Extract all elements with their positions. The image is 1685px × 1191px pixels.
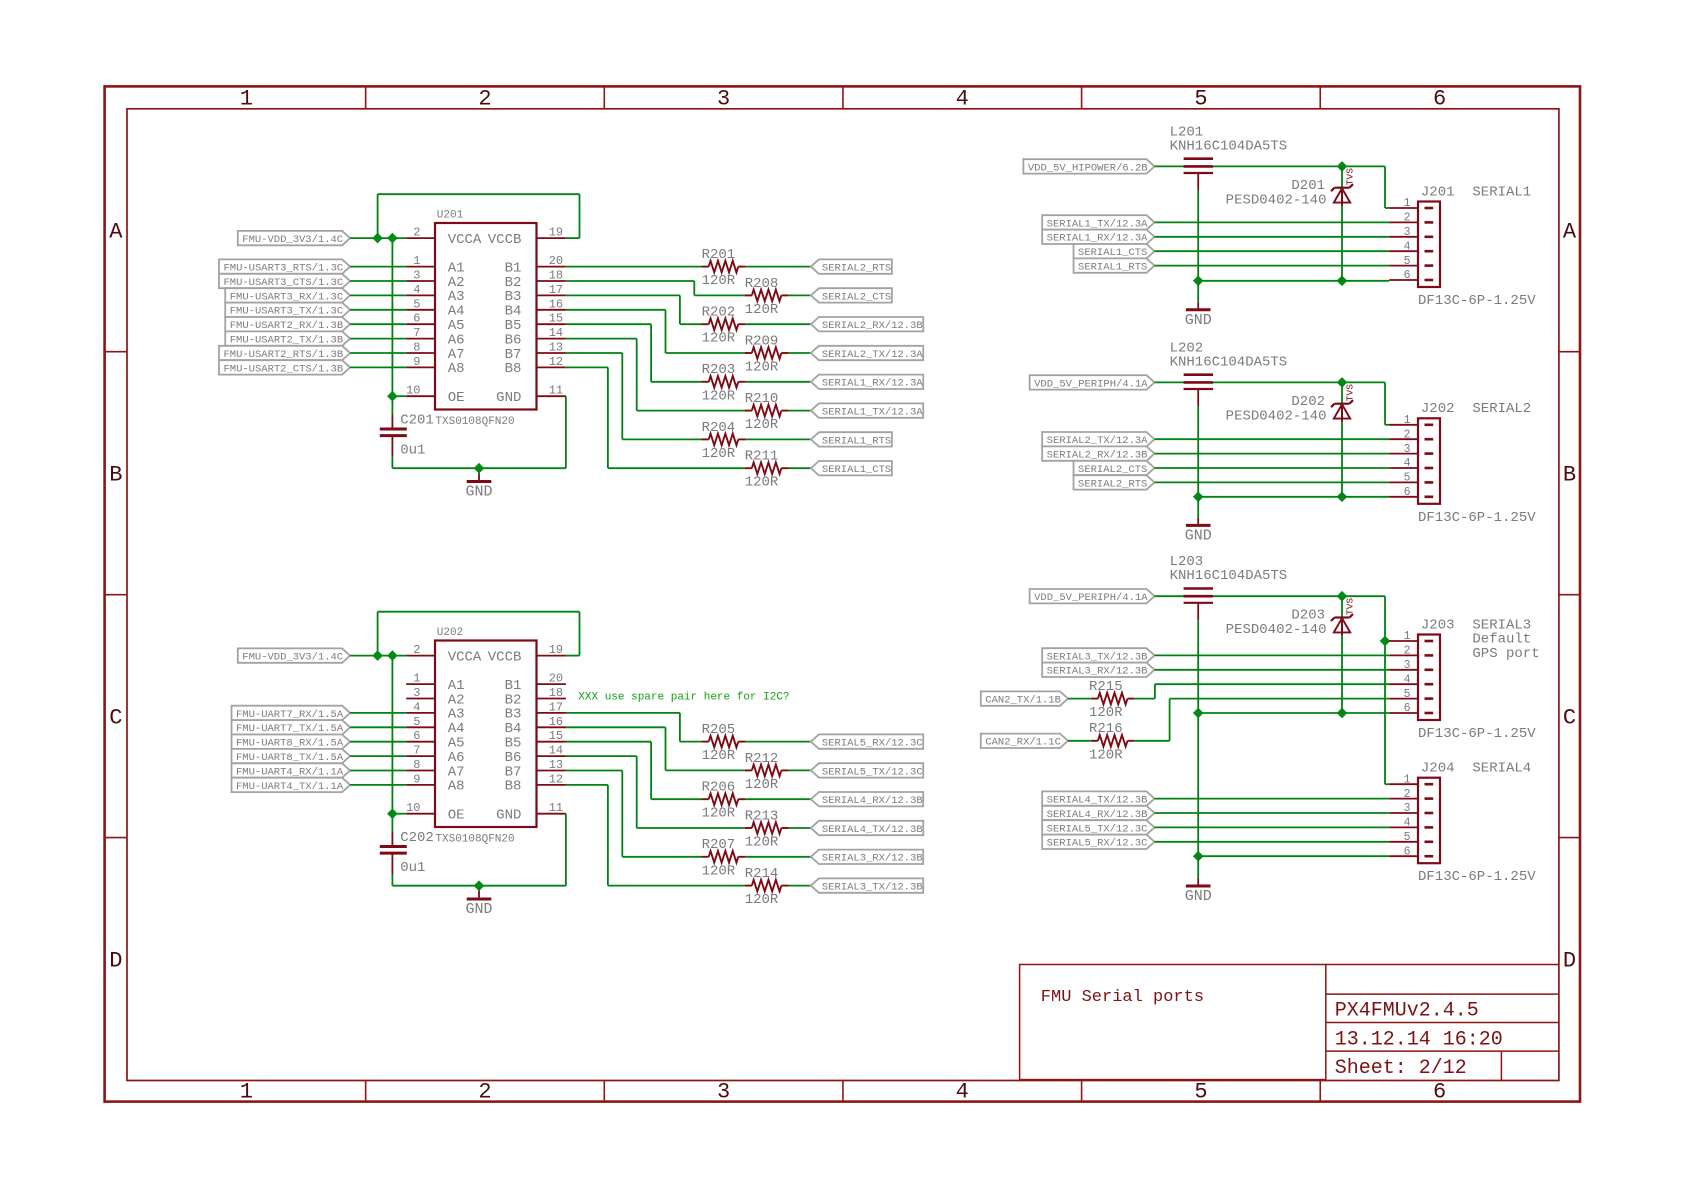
svg-text:0u1: 0u1 [400, 443, 425, 459]
svg-text:3: 3 [1404, 443, 1411, 456]
svg-text:4: 4 [1404, 457, 1411, 470]
svg-text:C201: C201 [400, 413, 434, 429]
svg-text:19: 19 [549, 643, 563, 657]
svg-text:B8: B8 [505, 361, 522, 377]
svg-text:120R: 120R [745, 892, 779, 908]
svg-text:VCCA: VCCA [448, 649, 482, 665]
svg-text:20: 20 [549, 254, 563, 268]
svg-text:3: 3 [1404, 802, 1411, 815]
svg-text:GND: GND [1185, 528, 1212, 545]
svg-text:FMU Serial ports: FMU Serial ports [1041, 988, 1204, 1007]
svg-text:4: 4 [1404, 673, 1411, 686]
svg-text:2: 2 [1404, 645, 1411, 658]
svg-text:15: 15 [549, 312, 563, 326]
svg-text:SERIAL1_CTS: SERIAL1_CTS [1078, 247, 1147, 259]
svg-text:20: 20 [549, 672, 563, 686]
svg-text:3: 3 [717, 1080, 730, 1105]
svg-text:1: 1 [240, 87, 253, 112]
svg-text:0u1: 0u1 [400, 860, 425, 876]
svg-text:15: 15 [549, 729, 563, 743]
svg-text:VDD_5V_PERIPH/4.1A: VDD_5V_PERIPH/4.1A [1034, 592, 1148, 604]
svg-text:FMU-USART2_RX/1.3B: FMU-USART2_RX/1.3B [230, 320, 343, 332]
svg-text:KNH16C104DA5TS: KNH16C104DA5TS [1170, 138, 1288, 154]
svg-text:R215: R215 [1089, 679, 1123, 695]
svg-text:SERIAL5_TX/12.3C: SERIAL5_TX/12.3C [822, 766, 923, 778]
svg-text:2: 2 [478, 87, 491, 112]
svg-text:KNH16C104DA5TS: KNH16C104DA5TS [1170, 354, 1288, 370]
svg-text:7: 7 [413, 744, 420, 758]
svg-text:4: 4 [956, 87, 969, 112]
svg-text:FMU-USART2_RTS/1.3B: FMU-USART2_RTS/1.3B [223, 349, 343, 361]
svg-text:1: 1 [1404, 773, 1411, 786]
svg-text:3: 3 [717, 87, 730, 112]
svg-text:A: A [1563, 220, 1577, 245]
svg-text:4: 4 [1404, 240, 1411, 253]
svg-text:SERIAL2_RX/12.3B: SERIAL2_RX/12.3B [1047, 450, 1148, 462]
svg-text:R209: R209 [745, 333, 779, 349]
svg-text:FMU-UART8_TX/1.5A: FMU-UART8_TX/1.5A [236, 752, 344, 764]
svg-text:B: B [109, 462, 122, 487]
svg-text:4: 4 [956, 1080, 969, 1105]
svg-text:3: 3 [413, 686, 420, 700]
svg-text:SERIAL1_RX/12.3A: SERIAL1_RX/12.3A [1047, 233, 1149, 245]
svg-text:120R: 120R [745, 417, 779, 433]
svg-text:2: 2 [413, 226, 420, 240]
svg-text:R214: R214 [745, 866, 779, 882]
svg-text:TXS0108QFN20: TXS0108QFN20 [435, 834, 514, 846]
svg-text:SERIAL2: SERIAL2 [1472, 401, 1531, 417]
svg-text:8: 8 [413, 341, 420, 355]
svg-text:12: 12 [549, 355, 563, 369]
svg-text:FMU-UART8_RX/1.5A: FMU-UART8_RX/1.5A [236, 738, 344, 750]
svg-text:DF13C-6P-1.25V: DF13C-6P-1.25V [1418, 726, 1536, 742]
svg-text:U201: U201 [437, 210, 464, 222]
svg-text:SERIAL1_RX/12.3A: SERIAL1_RX/12.3A [822, 378, 924, 390]
svg-text:2: 2 [1404, 788, 1411, 801]
svg-text:SERIAL1_CTS: SERIAL1_CTS [822, 464, 891, 476]
svg-text:10: 10 [406, 384, 420, 398]
svg-text:SERIAL3_TX/12.3B: SERIAL3_TX/12.3B [1047, 651, 1148, 663]
svg-text:SERIAL5_TX/12.3C: SERIAL5_TX/12.3C [1047, 823, 1148, 835]
svg-text:14: 14 [549, 326, 563, 340]
svg-text:VCCA: VCCA [448, 232, 482, 248]
svg-text:19: 19 [549, 226, 563, 240]
svg-text:R206: R206 [702, 780, 736, 796]
svg-text:5: 5 [1194, 1080, 1207, 1105]
svg-text:KNH16C104DA5TS: KNH16C104DA5TS [1170, 568, 1288, 584]
svg-text:16: 16 [549, 715, 563, 729]
svg-text:FMU-USART3_CTS/1.3C: FMU-USART3_CTS/1.3C [223, 277, 343, 289]
svg-text:C202: C202 [400, 830, 434, 846]
svg-text:11: 11 [549, 384, 563, 398]
svg-text:DF13C-6P-1.25V: DF13C-6P-1.25V [1418, 293, 1536, 309]
svg-text:SERIAL5_RX/12.3C: SERIAL5_RX/12.3C [822, 738, 923, 750]
svg-text:SERIAL2_RTS: SERIAL2_RTS [1078, 478, 1147, 490]
svg-text:3: 3 [413, 269, 420, 283]
svg-text:120R: 120R [745, 475, 779, 491]
svg-text:2: 2 [478, 1080, 491, 1105]
svg-text:7: 7 [413, 326, 420, 340]
svg-text:5: 5 [1194, 87, 1207, 112]
svg-text:18: 18 [549, 269, 563, 283]
svg-text:18: 18 [549, 686, 563, 700]
svg-text:SERIAL3_RX/12.3B: SERIAL3_RX/12.3B [822, 853, 923, 865]
svg-text:FMU-USART3_RTS/1.3C: FMU-USART3_RTS/1.3C [223, 263, 343, 275]
svg-text:FMU-VDD_3V3/1.4C: FMU-VDD_3V3/1.4C [242, 234, 343, 246]
svg-text:FMU-UART7_RX/1.5A: FMU-UART7_RX/1.5A [236, 709, 344, 721]
svg-text:5: 5 [1404, 472, 1411, 485]
svg-text:5: 5 [1404, 831, 1411, 844]
svg-text:GND: GND [1185, 312, 1212, 329]
svg-text:6: 6 [1404, 269, 1411, 282]
svg-text:120R: 120R [702, 388, 736, 404]
svg-text:2: 2 [413, 643, 420, 657]
svg-text:SERIAL2_RTS: SERIAL2_RTS [822, 263, 891, 275]
svg-text:R207: R207 [702, 837, 736, 853]
svg-text:R202: R202 [702, 305, 736, 321]
svg-text:GND: GND [496, 808, 521, 824]
svg-text:SERIAL1_RTS: SERIAL1_RTS [1078, 262, 1147, 274]
svg-text:2: 2 [1404, 212, 1411, 225]
svg-text:SERIAL2_TX/12.3A: SERIAL2_TX/12.3A [822, 349, 924, 361]
svg-text:D: D [1563, 948, 1576, 973]
svg-text:120R: 120R [702, 806, 736, 822]
svg-text:4: 4 [413, 283, 420, 297]
svg-text:R201: R201 [702, 247, 736, 263]
svg-text:R203: R203 [702, 362, 736, 378]
svg-text:TVS: TVS [1345, 384, 1356, 401]
svg-text:120R: 120R [702, 273, 736, 289]
svg-text:11: 11 [549, 801, 563, 815]
svg-text:5: 5 [1404, 688, 1411, 701]
svg-text:1: 1 [240, 1080, 253, 1105]
svg-text:5: 5 [1404, 255, 1411, 268]
svg-text:SERIAL4_TX/12.3B: SERIAL4_TX/12.3B [822, 824, 923, 836]
svg-text:1: 1 [413, 254, 420, 268]
svg-text:A: A [109, 220, 123, 245]
svg-text:PESD0402-140: PESD0402-140 [1226, 408, 1327, 424]
svg-text:SERIAL4_RX/12.3B: SERIAL4_RX/12.3B [822, 795, 923, 807]
svg-text:C: C [109, 705, 122, 730]
svg-text:C: C [1563, 705, 1576, 730]
svg-text:3: 3 [1404, 659, 1411, 672]
svg-text:120R: 120R [702, 446, 736, 462]
svg-text:J201: J201 [1421, 184, 1455, 200]
svg-text:SERIAL2_CTS: SERIAL2_CTS [822, 291, 891, 303]
svg-text:SERIAL4_RX/12.3B: SERIAL4_RX/12.3B [1047, 809, 1148, 821]
svg-text:J204: J204 [1421, 761, 1455, 777]
svg-text:VCCB: VCCB [488, 232, 522, 248]
svg-text:3: 3 [1404, 226, 1411, 239]
svg-text:13: 13 [549, 758, 563, 772]
svg-text:FMU-USART3_TX/1.3C: FMU-USART3_TX/1.3C [230, 306, 343, 318]
svg-text:A8: A8 [448, 361, 465, 377]
svg-text:DF13C-6P-1.25V: DF13C-6P-1.25V [1418, 510, 1536, 526]
svg-text:U202: U202 [437, 627, 463, 639]
svg-text:B: B [1563, 462, 1576, 487]
svg-text:5: 5 [413, 715, 420, 729]
svg-text:VDD_5V_PERIPH/4.1A: VDD_5V_PERIPH/4.1A [1034, 378, 1148, 390]
svg-text:XXX use spare pair here for I2: XXX use spare pair here for I2C? [578, 692, 789, 704]
svg-text:GND: GND [1185, 888, 1212, 905]
svg-text:GND: GND [465, 901, 492, 918]
svg-text:CAN2_RX/1.1C: CAN2_RX/1.1C [985, 737, 1061, 749]
svg-text:FMU-UART7_TX/1.5A: FMU-UART7_TX/1.5A [236, 723, 344, 735]
svg-text:6: 6 [1404, 486, 1411, 499]
svg-text:DF13C-6P-1.25V: DF13C-6P-1.25V [1418, 869, 1536, 885]
svg-text:9: 9 [413, 355, 420, 369]
svg-text:5: 5 [413, 297, 420, 311]
svg-text:SERIAL3_TX/12.3B: SERIAL3_TX/12.3B [822, 882, 923, 894]
svg-text:1: 1 [1404, 414, 1411, 427]
svg-text:VDD_5V_HIPOWER/6.2B: VDD_5V_HIPOWER/6.2B [1028, 162, 1148, 174]
svg-text:2: 2 [1404, 428, 1411, 441]
svg-text:OE: OE [448, 808, 465, 824]
svg-text:8: 8 [413, 758, 420, 772]
svg-text:SERIAL2_RX/12.3B: SERIAL2_RX/12.3B [822, 320, 923, 332]
svg-text:120R: 120R [1089, 705, 1123, 721]
svg-text:120R: 120R [702, 748, 736, 764]
svg-text:R204: R204 [702, 420, 736, 436]
svg-text:6: 6 [1433, 1080, 1446, 1105]
svg-text:PESD0402-140: PESD0402-140 [1226, 622, 1327, 638]
svg-text:GND: GND [496, 390, 521, 406]
svg-text:SERIAL4: SERIAL4 [1472, 761, 1531, 777]
svg-text:1: 1 [1404, 630, 1411, 643]
svg-text:PX4FMUv2.4.5: PX4FMUv2.4.5 [1335, 1000, 1479, 1023]
svg-text:FMU-VDD_3V3/1.4C: FMU-VDD_3V3/1.4C [242, 652, 343, 664]
svg-text:FMU-USART2_TX/1.3B: FMU-USART2_TX/1.3B [230, 335, 343, 347]
svg-text:10: 10 [406, 801, 420, 815]
svg-text:SERIAL2_TX/12.3A: SERIAL2_TX/12.3A [1047, 435, 1149, 447]
svg-text:13.12.14 16:20: 13.12.14 16:20 [1335, 1029, 1503, 1052]
svg-text:FMU-UART4_RX/1.1A: FMU-UART4_RX/1.1A [236, 766, 344, 778]
svg-text:Sheet: 2/12: Sheet: 2/12 [1335, 1057, 1467, 1080]
svg-text:6: 6 [1404, 845, 1411, 858]
svg-text:FMU-UART4_TX/1.1A: FMU-UART4_TX/1.1A [236, 781, 344, 793]
svg-text:9: 9 [413, 772, 420, 786]
svg-text:J202: J202 [1421, 401, 1455, 417]
svg-text:120R: 120R [745, 835, 779, 851]
svg-text:GPS port: GPS port [1472, 646, 1539, 662]
svg-text:R205: R205 [702, 722, 736, 738]
svg-text:R211: R211 [745, 449, 779, 465]
svg-text:SERIAL1: SERIAL1 [1472, 184, 1531, 200]
svg-text:OE: OE [448, 390, 465, 406]
svg-text:1: 1 [1404, 197, 1411, 210]
svg-text:R212: R212 [745, 751, 779, 767]
svg-text:R213: R213 [745, 808, 779, 824]
svg-text:TVS: TVS [1345, 168, 1356, 185]
svg-text:6: 6 [1404, 702, 1411, 715]
svg-text:FMU-USART3_RX/1.3C: FMU-USART3_RX/1.3C [230, 291, 343, 303]
svg-text:SERIAL1_TX/12.3A: SERIAL1_TX/12.3A [1047, 218, 1149, 230]
svg-text:12: 12 [549, 772, 563, 786]
svg-text:SERIAL4_TX/12.3B: SERIAL4_TX/12.3B [1047, 795, 1148, 807]
svg-text:VCCB: VCCB [488, 649, 522, 665]
svg-text:SERIAL5_RX/12.3C: SERIAL5_RX/12.3C [1047, 838, 1148, 850]
svg-text:SERIAL3_RX/12.3B: SERIAL3_RX/12.3B [1047, 666, 1148, 678]
svg-text:TVS: TVS [1345, 598, 1356, 615]
svg-text:R208: R208 [745, 276, 779, 292]
svg-text:SERIAL1_TX/12.3A: SERIAL1_TX/12.3A [822, 407, 924, 419]
svg-text:16: 16 [549, 297, 563, 311]
svg-text:TXS0108QFN20: TXS0108QFN20 [435, 416, 514, 428]
svg-text:120R: 120R [745, 302, 779, 318]
svg-text:14: 14 [549, 744, 563, 758]
svg-text:6: 6 [413, 729, 420, 743]
svg-text:4: 4 [413, 700, 420, 714]
svg-text:GND: GND [465, 484, 492, 501]
svg-text:13: 13 [549, 341, 563, 355]
svg-text:R216: R216 [1089, 721, 1123, 737]
svg-text:6: 6 [413, 312, 420, 326]
svg-text:1: 1 [413, 672, 420, 686]
svg-text:120R: 120R [745, 360, 779, 376]
svg-text:17: 17 [549, 283, 563, 297]
svg-text:SERIAL1_RTS: SERIAL1_RTS [822, 435, 891, 447]
svg-text:120R: 120R [1089, 747, 1123, 763]
svg-text:120R: 120R [702, 863, 736, 879]
svg-text:120R: 120R [745, 777, 779, 793]
svg-text:120R: 120R [702, 331, 736, 347]
svg-text:J203: J203 [1421, 617, 1455, 633]
svg-text:17: 17 [549, 700, 563, 714]
svg-text:R210: R210 [745, 391, 779, 407]
svg-text:SERIAL2_CTS: SERIAL2_CTS [1078, 464, 1147, 476]
svg-text:A8: A8 [448, 779, 465, 795]
svg-text:FMU-USART2_CTS/1.3B: FMU-USART2_CTS/1.3B [223, 363, 343, 375]
svg-text:B8: B8 [505, 779, 522, 795]
svg-text:D: D [109, 948, 122, 973]
svg-text:6: 6 [1433, 87, 1446, 112]
svg-text:4: 4 [1404, 817, 1411, 830]
svg-text:PESD0402-140: PESD0402-140 [1226, 192, 1327, 208]
svg-text:CAN2_TX/1.1B: CAN2_TX/1.1B [985, 695, 1061, 707]
